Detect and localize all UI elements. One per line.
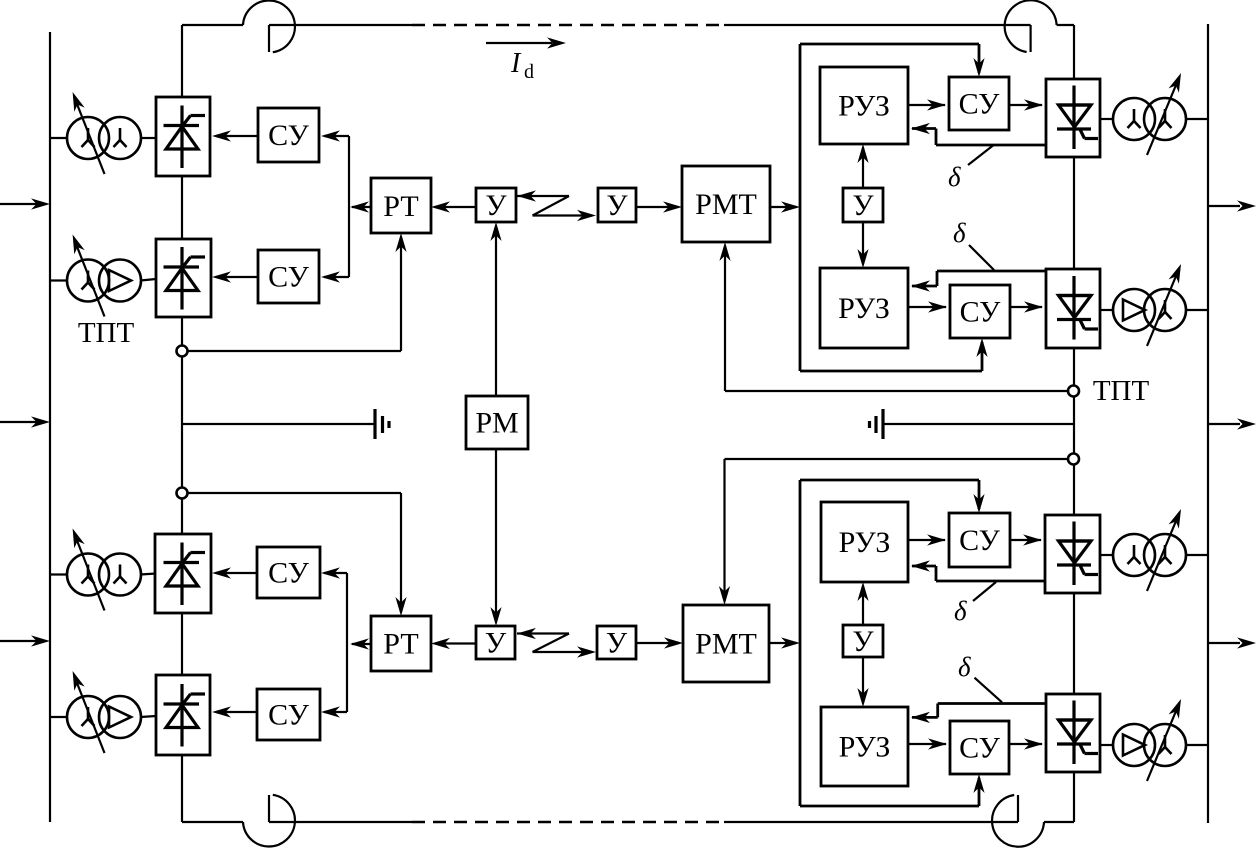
wire: PM regulator to U1 and U3	[490, 222, 501, 626]
arrow: U2 output to PMT1	[636, 201, 682, 212]
wire: right valve to transformer row y=745	[1100, 744, 1208, 746]
svg-text:У: У	[852, 625, 874, 658]
arrow: U4 output to PMT2	[636, 637, 683, 648]
svg-text:РУЗ: РУЗ	[838, 292, 890, 325]
svg-text:I: I	[510, 48, 522, 79]
transformer T5 (right row1, Y/Y, tap changer)	[1113, 71, 1186, 155]
DC current transducer loop, top-right	[1005, 0, 1057, 52]
ground (right neutral electrode)	[870, 409, 1075, 439]
box: extinction angle regulator RUZ1	[820, 67, 908, 144]
wire: distribution bracket, bottom half	[800, 480, 985, 806]
box: control box SU (left row1)	[258, 108, 319, 162]
ground (left neutral electrode)	[182, 409, 389, 439]
wire: right AC bus	[1207, 24, 1209, 823]
wire: left AC bus	[49, 32, 51, 822]
box: margin regulator PMT (top)	[682, 166, 770, 242]
wire: extinction angle feedback row 2	[911, 271, 1046, 292]
box: thyristor valve VS7 (right row3)	[1045, 515, 1100, 593]
wire: node4 to PMT2 top input	[719, 459, 1074, 605]
svg-text:У: У	[606, 189, 628, 222]
arrow: RUZ2 output to SU	[908, 301, 947, 312]
wire: node1 to PT1 bottom input	[182, 233, 407, 351]
wire: distribution bracket, top half	[800, 44, 988, 371]
arrow: AC output from right bus at y=643	[1208, 637, 1256, 648]
transformer T4 (left row4, Y/D, tap changer)	[67, 669, 141, 753]
transformer T1 (left row1, Y/Y, tap changer)	[67, 90, 141, 174]
box: extinction angle regulator RUZ4	[821, 707, 908, 786]
arrow: SU firing pulses to left valve at y=277	[212, 271, 258, 282]
thyristor symbol inside VS6 (right)	[1057, 276, 1098, 340]
arrow: SU firing pulses to left valve at y=573	[212, 567, 258, 578]
arrow: SU firing pulses to left valve at y=712	[212, 706, 258, 717]
svg-text:ТПТ: ТПТ	[78, 317, 135, 349]
svg-text:СУ: СУ	[268, 557, 310, 590]
box: amplifier U (top right)	[598, 188, 636, 222]
box: control box SU (right row1)	[949, 77, 1009, 130]
transformer T8 (right row4, D/Y, tap changer)	[1113, 697, 1186, 781]
node2 (left lower tap)	[177, 488, 188, 499]
wire: left converter column (x=182)	[181, 25, 183, 822]
svg-text:У: У	[485, 627, 507, 660]
wire: extinction angle feedback row 4	[911, 704, 1046, 724]
arrow: PMT1 output to right distribution bracket	[770, 201, 800, 212]
node1 (left TPT tap)	[177, 346, 188, 357]
arrow: into SU3L right edge	[321, 567, 347, 578]
arrow: RUZ4 output to SU	[908, 738, 947, 749]
wire: extinction angle feedback row 1	[911, 123, 1046, 145]
thyristor symbol inside VS5 (right)	[1057, 86, 1098, 150]
svg-text:СУ: СУ	[960, 296, 1002, 329]
svg-text:СУ: СУ	[959, 524, 1001, 557]
box: current regulator PT (bottom)	[371, 616, 431, 671]
arrow: RUZ1 output to SU	[908, 99, 946, 110]
telecontrol link (zigzag), bottom	[517, 628, 596, 658]
wire: left AC bus to transformer row y=138	[50, 137, 156, 139]
box: control box SU (right row4)	[950, 721, 1009, 774]
box: amplifier U (right bottom)	[843, 625, 883, 657]
box: amplifier U (bottom left)	[476, 626, 515, 659]
wire: top DC pole line	[182, 24, 1074, 26]
svg-text:У: У	[606, 627, 628, 660]
thyristor symbol inside VS2 (left)	[164, 247, 206, 310]
arrow: AC output from right bus at y=424	[1208, 418, 1256, 429]
thyristor symbol inside VS3 (left)	[164, 543, 206, 606]
wire: extinction angle feedback row 3	[911, 560, 1045, 581]
svg-text:d: d	[524, 61, 534, 83]
arrow: direct current direction Id	[486, 37, 566, 48]
svg-text:РУЗ: РУЗ	[839, 731, 891, 764]
box: current regulator PT (top)	[371, 178, 431, 233]
wire: PT2 output to SU distribution	[347, 573, 371, 712]
wire: U amplifier links RUZ3/RUZ4	[857, 582, 868, 707]
arrow: AC feed into left bus at y=641	[0, 635, 50, 646]
DC current transducer loop, bottom-right	[992, 795, 1044, 847]
box: control box SU (right row2)	[950, 285, 1010, 338]
arrow: PMT2 output to right distribution bracket	[769, 637, 800, 648]
svg-text:РМТ: РМТ	[695, 188, 757, 221]
wire: PT1 output to SU distribution	[349, 136, 371, 277]
arrow: SU output to right valve row 3	[1010, 534, 1042, 545]
box: control box SU (left row2)	[258, 250, 319, 303]
transformer T7 (right row3, Y/Y, tap changer)	[1113, 507, 1186, 591]
arrow: U1 output to PT1	[431, 201, 476, 212]
label delta row3 pointer	[973, 582, 996, 601]
box: control box SU (left row3)	[257, 547, 320, 598]
svg-text:У: У	[852, 189, 874, 222]
box: thyristor valve VS2 (left pole lower)	[156, 239, 211, 317]
wire: left AC bus to transformer row y=280.5	[50, 279, 156, 281]
svg-text:δ: δ	[958, 652, 971, 682]
label delta row4 pointer	[975, 678, 1003, 703]
wire: right valve to transformer row y=555	[1100, 554, 1208, 556]
box: extinction angle regulator RUZ2	[820, 268, 908, 348]
box: thyristor valve VS4 (left pole bottom)	[156, 675, 210, 755]
svg-text:ТПТ: ТПТ	[1093, 375, 1150, 407]
thyristor symbol inside VS1 (left)	[164, 106, 206, 169]
thyristor symbol inside VS7 (right)	[1057, 522, 1098, 586]
transformer T3 (left row3, Y/Y, tap changer)	[67, 526, 141, 610]
DC current transducer loop, bottom-left	[243, 795, 295, 847]
wire: right valve to transformer row y=310	[1100, 309, 1208, 311]
box: thyristor valve VS8 (right row4)	[1046, 694, 1100, 772]
box: margin regulator PMT (bottom)	[683, 605, 769, 682]
transformer T6 (right row2, D/Y, tap changer)	[1113, 262, 1186, 346]
transformer T2 (left row2, Y/D, tap changer)	[67, 232, 141, 316]
arrow: RUZ3 output to SU	[908, 534, 946, 545]
wire: right valve to transformer row y=119	[1100, 118, 1208, 120]
box: thyristor valve VS3 (left pole bottom half)	[155, 534, 211, 613]
arrow: SU firing pulses to left valve at y=136	[212, 130, 258, 141]
arrow: AC feed into left bus at y=422	[0, 416, 50, 427]
thyristor symbol inside VS8 (right)	[1057, 701, 1098, 765]
node4 (right lower tap)	[1068, 454, 1079, 465]
svg-text:РМ: РМ	[475, 407, 518, 440]
svg-text:РТ: РТ	[383, 190, 418, 223]
svg-text:СУ: СУ	[268, 699, 310, 732]
svg-text:РТ: РТ	[383, 628, 418, 661]
svg-text:δ: δ	[954, 596, 967, 626]
label delta row1 pointer	[968, 146, 993, 166]
wire: left AC bus to transformer row y=574.5	[50, 574, 156, 575]
svg-text:СУ: СУ	[959, 88, 1001, 121]
arrow: into SU4L right edge	[321, 706, 347, 717]
arrow: AC feed into left bus at y=204	[0, 198, 50, 209]
wire: bottom DC pole line	[182, 821, 1074, 823]
arrow: U3 output to PT2	[431, 638, 476, 649]
svg-text:СУ: СУ	[268, 261, 310, 294]
svg-text:СУ: СУ	[959, 732, 1001, 765]
wire: node3 (TPT) to PMT1 bottom input	[719, 242, 1074, 391]
telecontrol link (zigzag), top	[517, 190, 596, 221]
svg-text:δ: δ	[948, 162, 961, 192]
wire: node2 to PT2 top input	[182, 493, 407, 616]
svg-text:СУ: СУ	[268, 119, 310, 152]
svg-text:δ: δ	[953, 218, 966, 248]
wire: U amplifier links RUZ1/RUZ2	[857, 144, 868, 268]
svg-text:РУЗ: РУЗ	[838, 90, 890, 123]
arrow: into SU1L right edge	[321, 130, 349, 141]
thyristor symbol inside VS4 (left)	[164, 684, 206, 747]
svg-text:РМТ: РМТ	[695, 628, 757, 661]
box: extinction angle regulator RUZ3	[821, 502, 908, 582]
svg-text:У: У	[485, 189, 507, 222]
DC current transducer loop, top-left	[243, 0, 295, 52]
box: control box SU (right row3)	[949, 513, 1010, 567]
wire: left AC bus to transformer row y=717	[50, 716, 156, 717]
arrow: SU output to right valve row 4	[1009, 738, 1043, 749]
arrow: AC output from right bus at y=206	[1208, 200, 1256, 211]
box: amplifier U (right top)	[843, 188, 883, 222]
wire: right converter column (x=1074)	[1073, 25, 1075, 822]
svg-text:РУЗ: РУЗ	[839, 526, 891, 559]
box: power regulator PM	[466, 396, 528, 449]
arrow: into SU2L right edge	[321, 271, 349, 282]
box: thyristor valve VS5 (right row1)	[1046, 79, 1100, 157]
arrow: SU output to right valve row 2	[1010, 301, 1043, 312]
label delta row2 pointer	[969, 245, 994, 270]
box: amplifier U (bottom right)	[597, 626, 636, 659]
node3 (right TPT tap)	[1068, 386, 1079, 397]
box: thyristor valve VS1 (left pole top)	[156, 97, 210, 176]
arrow: SU output to right valve row 1	[1009, 99, 1043, 110]
box: control box SU (left row4)	[257, 689, 320, 740]
box: thyristor valve VS6 (right row2)	[1046, 269, 1100, 348]
box: amplifier U (top left)	[476, 188, 516, 222]
